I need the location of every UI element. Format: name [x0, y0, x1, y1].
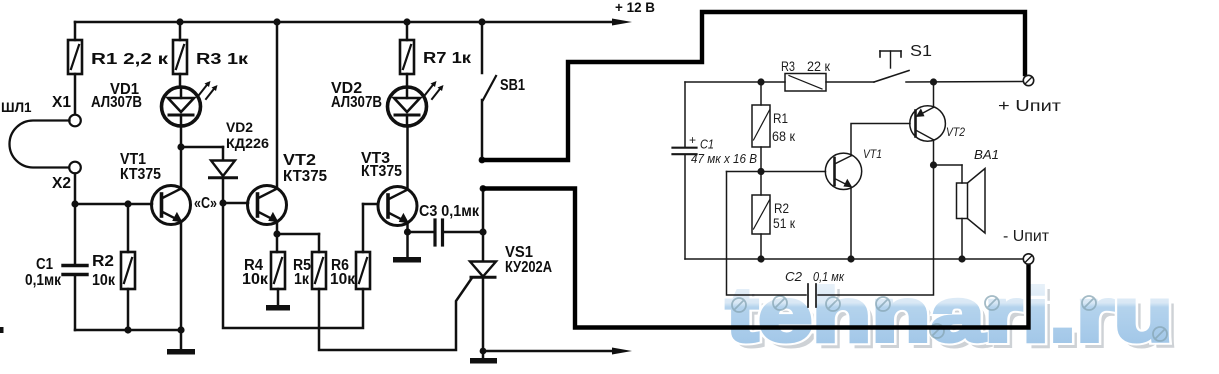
- svg-text:С1: С1: [700, 138, 714, 152]
- svg-text:R7 1к: R7 1к: [423, 50, 472, 67]
- svg-text:SB1: SB1: [500, 77, 525, 94]
- node VS1 anode: [480, 185, 487, 192]
- svg-text:R1 2,2 к: R1 2,2 к: [91, 51, 169, 68]
- diode VD2 KD226: [210, 120, 270, 203]
- svg-text:КТ375: КТ375: [120, 166, 161, 183]
- speaker BA1: [957, 147, 1000, 259]
- resistor R3 1k: [173, 22, 249, 87]
- resistor R3 22k: [781, 58, 831, 91]
- node VS1 cathode bottom: [480, 348, 487, 355]
- node rail-R1: [757, 78, 764, 85]
- ground under VT1: [167, 330, 195, 355]
- svg-text:С2: С2: [785, 269, 803, 284]
- node VT1 emitter bottom: [177, 326, 184, 333]
- svg-text:АЛ307В: АЛ307В: [331, 94, 382, 111]
- thyristor VS1 KU202A: [470, 189, 552, 352]
- svg-text:VD2: VD2: [226, 120, 253, 135]
- wire +12V top rail: [75, 19, 632, 26]
- node rail-VT2 collector: [930, 78, 937, 85]
- node rail-R7: [403, 18, 410, 25]
- node rail-R3: [176, 18, 183, 25]
- svg-text:КТ375: КТ375: [361, 163, 402, 180]
- wire left rail + capacitor C1 47mk: [673, 82, 758, 259]
- resistor R4 10k: [242, 234, 285, 305]
- wire VT2 to speaker: [934, 164, 963, 166]
- wire R5 bottom to VS1 gate: [319, 278, 472, 350]
- node VT3 emitter: [404, 228, 411, 235]
- resistor R7 1k: [400, 22, 472, 87]
- wire R6 top to VT3 base: [363, 203, 378, 206]
- svg-text:С1: С1: [36, 256, 53, 273]
- svg-text:R2: R2: [92, 253, 114, 270]
- svg-text:X1: X1: [52, 94, 71, 111]
- wire node C to VT2 base: [223, 202, 248, 205]
- node SB1 bottom: [479, 157, 486, 164]
- terminal -Upit: [1003, 228, 1050, 264]
- wire to VD2: [181, 146, 223, 149]
- svg-text:ШЛ1: ШЛ1: [1, 100, 32, 115]
- ground under R4: [266, 305, 290, 311]
- transistor VT1 KT375: [120, 147, 191, 330]
- svg-text:КД226: КД226: [226, 136, 270, 151]
- svg-text:+ 12 В: + 12 В: [615, 0, 655, 15]
- resistor R2 51k: [752, 172, 796, 260]
- resistor R1 2,2k: [68, 22, 169, 114]
- node VT2 collector-speaker: [930, 161, 937, 168]
- RIGHTSCHEMATIC: [673, 43, 1062, 307]
- wire R1 bottom to VT1 base: [727, 171, 826, 173]
- svg-text:0,1 мк: 0,1 мк: [813, 269, 845, 284]
- svg-text:10к: 10к: [330, 271, 356, 288]
- svg-text:X2: X2: [52, 175, 71, 192]
- node R1 bottom: [757, 168, 764, 175]
- terminal X1: [52, 94, 81, 126]
- svg-text:VT2: VT2: [946, 125, 965, 139]
- wire top rail right: [685, 81, 1023, 84]
- node X2-C1: [71, 200, 78, 207]
- node rail-SB1: [478, 18, 485, 25]
- svg-text:R3 1к: R3 1к: [196, 51, 249, 68]
- capacitor C2 0,1mk: [727, 165, 934, 307]
- svg-text:- Uпит: - Uпит: [1003, 228, 1050, 245]
- transistor VT3 KT375: [361, 126, 417, 232]
- svg-text:КТ375: КТ375: [283, 168, 327, 185]
- wire bottom rail right: [685, 258, 1023, 260]
- svg-text:С3 0,1мк: С3 0,1мк: [419, 203, 480, 220]
- svg-text:VT1: VT1: [863, 147, 882, 161]
- node C3-VS1: [479, 228, 486, 235]
- svg-text:+: +: [689, 133, 696, 147]
- svg-text:51 к: 51 к: [773, 215, 796, 231]
- svg-text:АЛ307В: АЛ307В: [91, 94, 142, 111]
- svg-text:R3: R3: [781, 58, 795, 74]
- node C: [194, 195, 227, 212]
- node VT1 emitter rail: [847, 255, 854, 262]
- switch SB1: [482, 22, 525, 160]
- wire plug loop ShL1: [1, 100, 70, 168]
- wire thick VS1 anode to -Upit: [484, 189, 1029, 328]
- switch S1: [874, 43, 932, 82]
- transistor VT2: [910, 82, 965, 165]
- LED VD1 AL307B: [91, 81, 218, 147]
- wire emitter to R5: [277, 233, 319, 236]
- transistor VT2 KT375: [248, 22, 328, 234]
- svg-text:47 мк x 16 В: 47 мк x 16 В: [691, 152, 757, 166]
- LED VD2 AL307B: [331, 80, 444, 126]
- svg-text:10к: 10к: [92, 272, 116, 289]
- wire bottom left: [75, 329, 181, 332]
- svg-text:BA1: BA1: [974, 147, 999, 162]
- svg-text:S1: S1: [910, 43, 932, 60]
- ground under VT3: [393, 232, 421, 263]
- edge mark: [0, 327, 4, 333]
- resistor R6 10k: [330, 204, 370, 289]
- wire bottom arrow: [483, 348, 632, 355]
- wire thick SB1 to +Upit: [482, 12, 1025, 160]
- node R2 bottom: [757, 255, 764, 262]
- svg-text:R2: R2: [774, 200, 789, 216]
- node R2 top: [124, 200, 131, 207]
- svg-text:«С»: «С»: [194, 195, 217, 212]
- wire VD2 down to R6 bottom: [223, 203, 363, 328]
- capacitor C1 0,1mk: [25, 204, 87, 330]
- svg-text:КУ202А: КУ202А: [505, 259, 552, 276]
- transistor VT1: [825, 124, 910, 260]
- svg-text:R1: R1: [773, 110, 788, 126]
- svg-text:tehnari.ru: tehnari.ru: [726, 273, 1173, 358]
- terminal X2: [52, 162, 81, 192]
- svg-text:0,1мк: 0,1мк: [25, 272, 62, 289]
- ground under VS1: [470, 351, 497, 364]
- node speaker bottom: [958, 255, 965, 262]
- node R2 bottom: [124, 326, 131, 333]
- resistor R1 68k: [752, 82, 796, 172]
- svg-text:10к: 10к: [242, 271, 269, 288]
- resistor R5 1k: [293, 234, 326, 289]
- svg-text:1к: 1к: [294, 271, 310, 288]
- terminal +Upit: [998, 75, 1062, 115]
- wire X2 to base node: [75, 174, 152, 205]
- svg-text:+ Uпит: + Uпит: [998, 98, 1062, 115]
- svg-text:22 к: 22 к: [807, 58, 831, 74]
- node rail-VT2: [273, 18, 280, 25]
- svg-text:VT2: VT2: [283, 152, 316, 169]
- node VD1-VT1 collector: [177, 143, 184, 150]
- capacitor C3 0,1mk: [408, 203, 484, 245]
- svg-text:68 к: 68 к: [772, 128, 796, 144]
- resistor R2 10k: [92, 204, 135, 330]
- node VT2 emitter: [273, 230, 280, 237]
